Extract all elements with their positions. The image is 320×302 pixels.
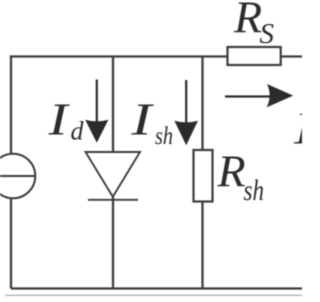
svg-text:d: d: [71, 117, 85, 146]
label Ish: [130, 94, 173, 151]
svg-text:sh: sh: [244, 174, 265, 207]
label Rsh: [217, 146, 265, 207]
wire left branch upper: [10, 55, 12, 154]
wire Rsh branch lower: [201, 201, 203, 289]
wire diode branch lower: [112, 197, 114, 289]
svg-text:I: I: [293, 103, 302, 154]
svg-text:S: S: [260, 18, 275, 50]
resistor Rs: [228, 47, 281, 65]
label Id: [47, 94, 84, 146]
wire Rsh branch upper: [201, 57, 203, 151]
faint scan line: [5, 294, 302, 296]
diode D1: [86, 152, 141, 200]
svg-text:R: R: [233, 0, 262, 43]
svg-text:I: I: [130, 94, 155, 145]
resistor Rsh: [194, 150, 213, 202]
wire left branch lower: [10, 198, 12, 289]
current arrow I output: [225, 84, 293, 107]
current source Iph: [0, 154, 35, 199]
svg-text:sh: sh: [155, 123, 173, 150]
current arrow Id: [85, 80, 108, 143]
current arrow Ish: [174, 80, 198, 145]
wire bottom rail: [11, 287, 302, 289]
svg-text:R: R: [217, 146, 246, 197]
wire diode branch upper: [112, 57, 114, 153]
label Rs: [233, 0, 275, 50]
wire top rail: [11, 55, 302, 57]
svg-text:I: I: [47, 94, 71, 145]
